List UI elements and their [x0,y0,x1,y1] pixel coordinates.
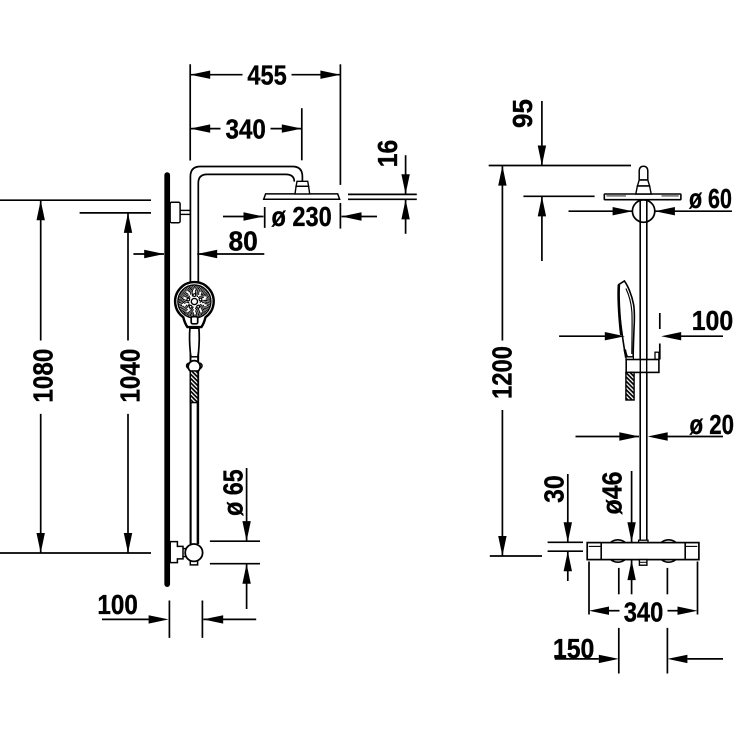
svg-text:340: 340 [624,597,664,628]
svg-text:1040: 1040 [114,349,145,403]
svg-text:455: 455 [247,60,286,91]
svg-text:95: 95 [507,99,538,128]
svg-text:30: 30 [539,475,570,503]
svg-text:ø46: ø46 [597,472,628,515]
svg-text:150: 150 [553,633,595,664]
svg-text:ø 65: ø 65 [218,469,249,515]
svg-text:ø 60: ø 60 [689,183,732,214]
svg-text:1080: 1080 [27,349,58,403]
svg-text:340: 340 [226,114,266,145]
svg-text:100: 100 [97,589,137,620]
svg-text:ø 20: ø 20 [690,409,735,440]
svg-text:80: 80 [229,225,258,256]
svg-text:16: 16 [372,140,403,168]
svg-text:1200: 1200 [487,346,518,399]
svg-text:ø 230: ø 230 [272,201,332,232]
svg-text:100: 100 [692,305,734,336]
